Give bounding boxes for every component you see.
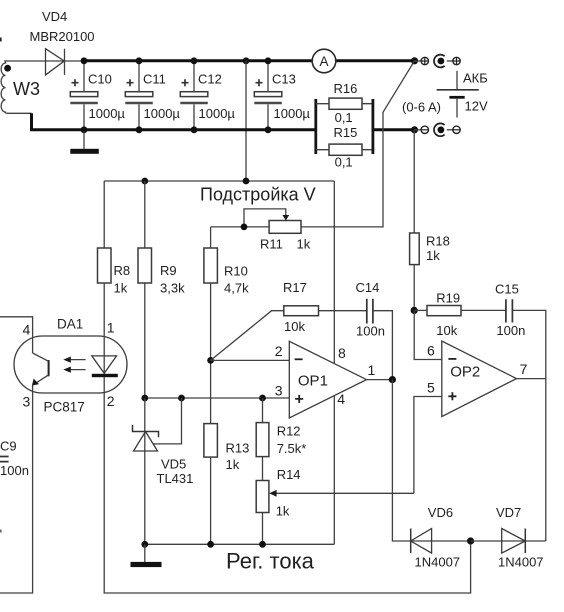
svg-text:VD7: VD7 xyxy=(496,505,521,520)
left edge crop mark top xyxy=(0,38,2,42)
svg-text:100n: 100n xyxy=(356,323,385,338)
node VD6 VD7 xyxy=(467,537,474,544)
svg-text:C14: C14 xyxy=(356,280,380,295)
wire R14 wiper to OP2 pin5 xyxy=(414,397,442,494)
svg-text:2: 2 xyxy=(107,393,115,409)
wire DA1 pin4 xyxy=(0,317,33,353)
svg-text:4: 4 xyxy=(337,391,345,407)
node supply tap xyxy=(243,57,250,64)
svg-text:VD4: VD4 xyxy=(42,9,67,24)
svg-text:10k: 10k xyxy=(284,319,305,334)
capacitor C13 xyxy=(254,61,310,130)
wire OP1 pin4 to ground bus xyxy=(333,396,335,545)
node C11 top xyxy=(136,57,143,64)
svg-text:1000µ: 1000µ xyxy=(144,106,181,121)
resistor R8 xyxy=(98,181,131,337)
svg-text:R9: R9 xyxy=(160,263,177,278)
top bus wire xyxy=(84,59,312,62)
svg-text:1N4007: 1N4007 xyxy=(498,554,544,569)
node ground VD5 xyxy=(141,541,148,548)
wire VD4 to node xyxy=(65,60,85,62)
svg-text:A: A xyxy=(319,54,328,69)
V+ rail of regulator xyxy=(104,180,334,182)
svg-text:C10: C10 xyxy=(88,71,112,86)
svg-text:10k: 10k xyxy=(436,323,457,338)
bottom bus wire (right of shunt) xyxy=(373,128,415,131)
svg-text:5: 5 xyxy=(427,380,435,396)
node pin3 ref xyxy=(178,395,185,402)
minus output connector xyxy=(415,123,461,136)
node pin3 VD5 xyxy=(141,395,148,402)
svg-text:MBR20100: MBR20100 xyxy=(30,29,95,44)
svg-text:R18: R18 xyxy=(426,234,450,249)
node rail supply xyxy=(243,178,250,185)
wire node to OP2 pin6 xyxy=(414,310,442,359)
ground bus xyxy=(145,543,334,545)
capacitor C9 (edge of image) xyxy=(0,438,29,478)
svg-text:C12: C12 xyxy=(198,71,222,86)
wire OP1 output down to VD6 xyxy=(392,380,470,541)
svg-text:1k: 1k xyxy=(226,457,240,472)
svg-text:1: 1 xyxy=(107,320,115,336)
svg-text:PC817: PC817 xyxy=(44,400,85,415)
svg-text:(0-6 A): (0-6 A) xyxy=(402,99,441,114)
svg-text:Подстройка V: Подстройка V xyxy=(200,184,316,204)
svg-text:R19: R19 xyxy=(436,291,460,306)
node plus terminal xyxy=(411,57,418,64)
wire DA1 pin3 down and out xyxy=(0,384,33,593)
wire OP2 output xyxy=(517,378,546,380)
node C12 top xyxy=(191,57,198,64)
op-amp OP2 xyxy=(427,341,528,417)
shunt regulator VD5 TL431 xyxy=(133,398,194,544)
shunt left bar xyxy=(314,99,317,154)
battery AKB xyxy=(437,71,488,118)
svg-text:0,1: 0,1 xyxy=(335,154,353,169)
svg-text:100n: 100n xyxy=(0,463,29,478)
svg-text:R11: R11 xyxy=(260,236,283,251)
resistor R9 xyxy=(138,181,185,398)
svg-text:OP1: OP1 xyxy=(298,372,328,389)
capacitor C10 xyxy=(70,61,125,130)
wire W3 to VD4 xyxy=(8,60,65,62)
node C11 bottom xyxy=(136,126,143,133)
svg-text:VD6: VD6 xyxy=(428,505,453,520)
svg-text:1k: 1k xyxy=(114,280,128,295)
svg-text:C13: C13 xyxy=(272,71,296,86)
svg-text:8: 8 xyxy=(338,345,346,361)
ground (top section) xyxy=(70,130,99,154)
node rail R9 xyxy=(141,178,148,185)
wire pin3 row xyxy=(145,397,289,399)
node C13 top xyxy=(265,57,272,64)
svg-text:DA1: DA1 xyxy=(57,316,83,331)
svg-text:Рег. тока: Рег. тока xyxy=(226,548,315,573)
svg-text:6: 6 xyxy=(427,343,435,359)
node R18 R19 xyxy=(411,307,418,314)
svg-text:12V: 12V xyxy=(465,99,488,114)
svg-text:VD5: VD5 xyxy=(161,456,186,471)
ammeter A xyxy=(312,49,336,73)
svg-text:C9: C9 xyxy=(0,438,17,453)
wire plus node to R11 (diagonal) xyxy=(301,61,415,227)
wire OP1 output xyxy=(367,379,393,381)
svg-text:7.5k*: 7.5k* xyxy=(277,441,307,456)
svg-text:АКБ: АКБ xyxy=(463,71,488,86)
node R11 wiper xyxy=(241,224,248,231)
diode VD7 xyxy=(471,505,546,569)
svg-text:1000µ: 1000µ xyxy=(274,106,311,121)
svg-text:0,1: 0,1 xyxy=(335,110,353,125)
svg-text:1000µ: 1000µ xyxy=(89,106,126,121)
svg-text:C15: C15 xyxy=(495,281,519,296)
node ground R14 xyxy=(259,541,266,548)
svg-text:7: 7 xyxy=(520,361,528,377)
resistor R10 xyxy=(204,227,249,424)
left edge crop mark bottom xyxy=(0,530,2,533)
node OP1 inverting input xyxy=(207,357,214,364)
diode VD6 xyxy=(411,505,460,569)
potentiometer R11 xyxy=(211,209,311,252)
wire DA1 pin2 to bottom rail xyxy=(104,393,470,593)
node C13 bottom xyxy=(265,126,272,133)
shunt right bar xyxy=(371,99,374,154)
node pin3 R12 xyxy=(259,395,266,402)
op-amp OP1 xyxy=(275,341,376,418)
resistor R15 xyxy=(316,125,373,169)
svg-text:R13: R13 xyxy=(226,441,250,456)
capacitor C12 xyxy=(180,61,235,130)
resistor R19 xyxy=(414,291,506,338)
svg-text:W3: W3 xyxy=(13,79,40,99)
svg-text:1k: 1k xyxy=(276,503,290,518)
capacitor C14 xyxy=(356,280,393,380)
node OP1 output xyxy=(389,376,396,383)
optocoupler DA1 PC817 xyxy=(14,316,127,414)
wire VD5 reference xyxy=(153,398,181,444)
bottom bus wire (left of shunt) xyxy=(32,113,316,130)
node C10 bottom xyxy=(81,126,88,133)
inductor W3 xyxy=(1,61,40,113)
svg-text:2: 2 xyxy=(275,343,283,359)
svg-text:1k: 1k xyxy=(426,248,440,263)
svg-text:R8: R8 xyxy=(114,263,131,278)
svg-text:R12: R12 xyxy=(277,424,301,439)
node C12 bottom xyxy=(191,126,198,133)
capacitor C15 xyxy=(495,281,546,541)
svg-text:1: 1 xyxy=(368,362,376,378)
wire minus node down to R18 xyxy=(413,130,415,233)
capacitor C11 xyxy=(125,61,180,130)
svg-text:TL431: TL431 xyxy=(157,471,194,486)
svg-text:R16: R16 xyxy=(334,81,358,96)
plus output connector xyxy=(415,55,461,68)
svg-text:1k: 1k xyxy=(297,236,311,251)
svg-text:OP2: OP2 xyxy=(450,363,480,380)
wire supply tap down to rail xyxy=(245,61,247,181)
resistor R16 xyxy=(316,81,373,125)
wire ammeter to plus terminal xyxy=(336,59,415,62)
svg-text:3: 3 xyxy=(23,394,31,410)
ground (regulator) xyxy=(131,544,162,567)
svg-text:R10: R10 xyxy=(224,263,248,278)
svg-text:R15: R15 xyxy=(334,125,358,140)
resistor R18 xyxy=(410,233,450,310)
resistor R17 xyxy=(211,280,367,361)
node C10 top xyxy=(81,57,88,64)
trimmer R14 xyxy=(256,467,414,545)
svg-text:3: 3 xyxy=(275,382,283,398)
LED of DA1 xyxy=(92,336,118,393)
wire pin2 row xyxy=(211,359,290,361)
svg-text:4: 4 xyxy=(23,321,31,337)
resistor R12 xyxy=(256,398,306,481)
node ground R13 xyxy=(207,541,214,548)
svg-text:R14: R14 xyxy=(277,467,301,482)
diode VD4 xyxy=(30,9,95,75)
svg-text:1000µ: 1000µ xyxy=(199,106,236,121)
svg-text:R17: R17 xyxy=(283,280,307,295)
wire rail to OP1 pin8 xyxy=(333,181,335,364)
light arrows xyxy=(63,357,85,373)
svg-text:C11: C11 xyxy=(143,71,166,86)
svg-text:4,7k: 4,7k xyxy=(224,280,249,295)
winding polarity dot xyxy=(4,65,11,72)
svg-text:1N4007: 1N4007 xyxy=(415,554,461,569)
phototransistor Q of DA1 xyxy=(32,353,49,386)
node minus terminal xyxy=(411,126,418,133)
svg-text:100n: 100n xyxy=(496,323,525,338)
resistor R13 xyxy=(204,424,249,545)
svg-text:3,3k: 3,3k xyxy=(160,280,185,295)
